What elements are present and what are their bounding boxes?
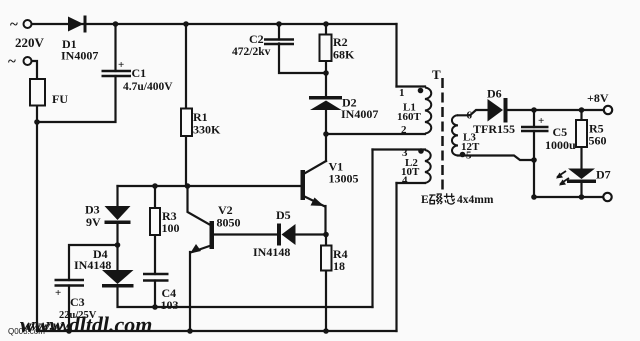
wire C3 top link (69, 245, 118, 280)
wire R1 top branch (185, 24, 187, 109)
resistor R1 330K (181, 109, 192, 137)
svg-text:103: 103 (161, 298, 179, 312)
L3 phase dot (460, 152, 466, 158)
svg-text:68K: 68K (333, 48, 355, 62)
wire pin4 stub to L2 (397, 182, 426, 184)
wire C4 bottom (154, 281, 156, 308)
wire D2 anode to V1 collector node (325, 110, 327, 161)
wire C5 vertical bottom to return rail (534, 131, 604, 197)
return output terminal (603, 193, 611, 201)
svg-text:100: 100 (162, 221, 180, 235)
svg-text:4: 4 (402, 175, 408, 187)
+8V output terminal (604, 106, 612, 114)
L2 phase dot (418, 148, 424, 154)
wire V2 emitter diagonal (192, 246, 210, 252)
svg-text:E: E (421, 194, 429, 206)
wire pin1 vertical drop (395, 24, 397, 87)
svg-text:C2: C2 (249, 32, 264, 46)
wire D3 cathode to D4 anode (116, 224, 118, 270)
wire R5 top (580, 110, 582, 120)
wire D7 cathode to return (580, 183, 582, 197)
node R3/bias line (152, 183, 158, 189)
L1 phase dot (418, 88, 424, 94)
wire V2 emitter drop to rail (189, 252, 191, 331)
AC live terminal (24, 20, 32, 28)
svg-text:2: 2 (401, 124, 407, 136)
winding L1 160T (425, 88, 431, 134)
svg-text:C1: C1 (132, 66, 147, 80)
node C5 bottom corner (531, 194, 537, 200)
svg-text:+: + (55, 287, 61, 299)
wire pin3 stub to L2 (373, 148, 426, 150)
wire D6 cathode to +8V terminal (508, 109, 605, 111)
resistor R4 18 (321, 246, 332, 271)
diode D2 IN4007 (309, 96, 342, 110)
wire R3 to C4 (154, 235, 156, 274)
svg-text:D7: D7 (596, 168, 611, 182)
svg-text:9V: 9V (86, 215, 101, 229)
node R1/top rail (183, 21, 189, 27)
wire C5 vertical top (533, 110, 535, 127)
node R2/top rail (323, 21, 329, 27)
svg-text:472/2kv: 472/2kv (232, 46, 271, 58)
wire C1 top branch (114, 24, 116, 71)
winding L2 10T (425, 150, 431, 183)
wire fuse to bottom rail (36, 106, 38, 332)
capacitor C3 22u/25V (55, 280, 85, 286)
capacitor C4 103 (143, 274, 169, 281)
svg-text:C5: C5 (553, 125, 568, 139)
node C3/D3-D4 (115, 242, 121, 248)
svg-text:560: 560 (589, 134, 607, 148)
diode D1 IN4007 (68, 16, 87, 33)
svg-text:D5: D5 (276, 208, 291, 222)
svg-text:+: + (118, 59, 124, 71)
svg-text:8050: 8050 (217, 216, 241, 230)
node V1 emitter/D5/R4 (323, 232, 329, 238)
LED D7 (567, 169, 596, 184)
node C2/top rail (276, 21, 282, 27)
diode D5 IN4148 (277, 224, 296, 246)
node C4/low line (152, 304, 158, 310)
svg-text:T: T (432, 67, 441, 82)
wire V1 emitter diagonal (304, 196, 325, 206)
svg-text:D6: D6 (487, 87, 502, 101)
wire C2 bottom to R2 node (279, 44, 326, 74)
svg-text:6: 6 (467, 110, 473, 122)
wire top rail from AC terminal to transformer pin1 drop (31, 23, 397, 25)
diode D6 TFR155 (488, 98, 508, 123)
svg-text:TFR155: TFR155 (473, 122, 515, 136)
svg-text:IN4007: IN4007 (61, 49, 98, 63)
capacitor C5 1000u (521, 127, 549, 131)
node pin5/C5 line (531, 157, 537, 163)
wire pin1 stub to L1 (397, 85, 426, 87)
svg-text:+: + (538, 115, 544, 127)
node R1/V2 collector/bias line (185, 183, 191, 189)
wire R2 top branch (325, 24, 327, 35)
svg-text:5: 5 (466, 150, 472, 162)
diode D4 IN4148 (102, 270, 134, 288)
wire bias line D3 to V1 base (118, 185, 301, 187)
transistor V2 8050 (190, 221, 214, 254)
svg-text:13005: 13005 (329, 172, 359, 186)
svg-text:+8V: +8V (587, 91, 609, 105)
wire R3 top (154, 186, 156, 208)
wire AC neutral terminal to fuse (31, 61, 37, 79)
wire pin2 stub from node to L1 (326, 133, 425, 135)
wire C1 bottom to fuse line (37, 76, 116, 122)
svg-text:1000u: 1000u (545, 138, 576, 152)
transistor V1 13005 (301, 170, 325, 206)
wire pin6 stub to D6 (458, 110, 488, 115)
resistor R5 560 (576, 120, 587, 147)
svg-text:IN4007: IN4007 (341, 107, 378, 121)
D7 emission arrows (557, 171, 569, 184)
wire pin5 stub to C5 line (458, 156, 534, 161)
wire V1 collector diagonal (304, 161, 327, 174)
svg-text:C3: C3 (70, 295, 85, 309)
node R5/output rail (579, 107, 585, 113)
svg-text:220V: 220V (15, 35, 45, 50)
node R4/bottom rail (323, 328, 329, 334)
wire bottom rail riser to pin4 (395, 183, 397, 331)
winding L3 12T (452, 115, 458, 155)
svg-text:~: ~ (8, 54, 16, 70)
svg-text:4x4mm: 4x4mm (457, 194, 494, 206)
wire V2 base to D5 cathode (214, 233, 278, 235)
svg-text:160T: 160T (397, 111, 422, 123)
svg-text:FU: FU (52, 92, 68, 106)
svg-text:IN4148: IN4148 (253, 245, 290, 259)
resistor R3 100 (150, 208, 160, 235)
node fuse/C1 (34, 119, 40, 125)
svg-text:~: ~ (10, 17, 18, 33)
node C3/bottom rail (66, 328, 72, 334)
capacitor C1 4.7u/400V (102, 71, 132, 76)
wire D4 cathode to low line (118, 287, 373, 307)
wire R4 bottom to rail (325, 271, 327, 332)
wire V2 collector riser (188, 186, 210, 225)
node D7/return rail (579, 194, 585, 200)
capacitor C2 472/2kv (264, 40, 294, 45)
svg-text:330K: 330K (193, 123, 221, 137)
svg-text:4.7u/400V: 4.7u/400V (123, 81, 173, 93)
wire C2 top branch (278, 24, 280, 40)
wire R4 top (325, 235, 327, 246)
fuse FU (30, 79, 45, 106)
node D2 anode/pin2/V1 collector (323, 131, 329, 137)
wire bottom rail (37, 330, 397, 332)
wire C3 bottom to rail (68, 286, 70, 332)
wire D5 anode to emitter node (296, 233, 327, 235)
node C1/top rail (113, 21, 119, 27)
transformer T core (441, 78, 444, 190)
wire D3 top drop (116, 186, 118, 206)
wire low line riser to pin3 (371, 150, 373, 308)
resistor R2 68K (320, 35, 332, 62)
node V2 emitter/bottom rail (187, 328, 193, 334)
wire V1 emitter drop to node (324, 206, 326, 235)
wire R5 to D7 (580, 147, 582, 169)
zener diode D3 9V (105, 206, 131, 224)
wire R2 bottom to D2 cathode (325, 61, 327, 96)
node C5 top/output rail (531, 107, 537, 113)
svg-text:1: 1 (399, 87, 405, 99)
wire R1 bottom to bias line (185, 136, 187, 186)
AC neutral terminal (24, 57, 32, 65)
svg-text:IN4148: IN4148 (74, 258, 111, 272)
svg-text:18: 18 (333, 259, 345, 273)
node C2/R2/D2 (323, 70, 329, 76)
svg-text:Q003.com: Q003.com (8, 327, 45, 336)
